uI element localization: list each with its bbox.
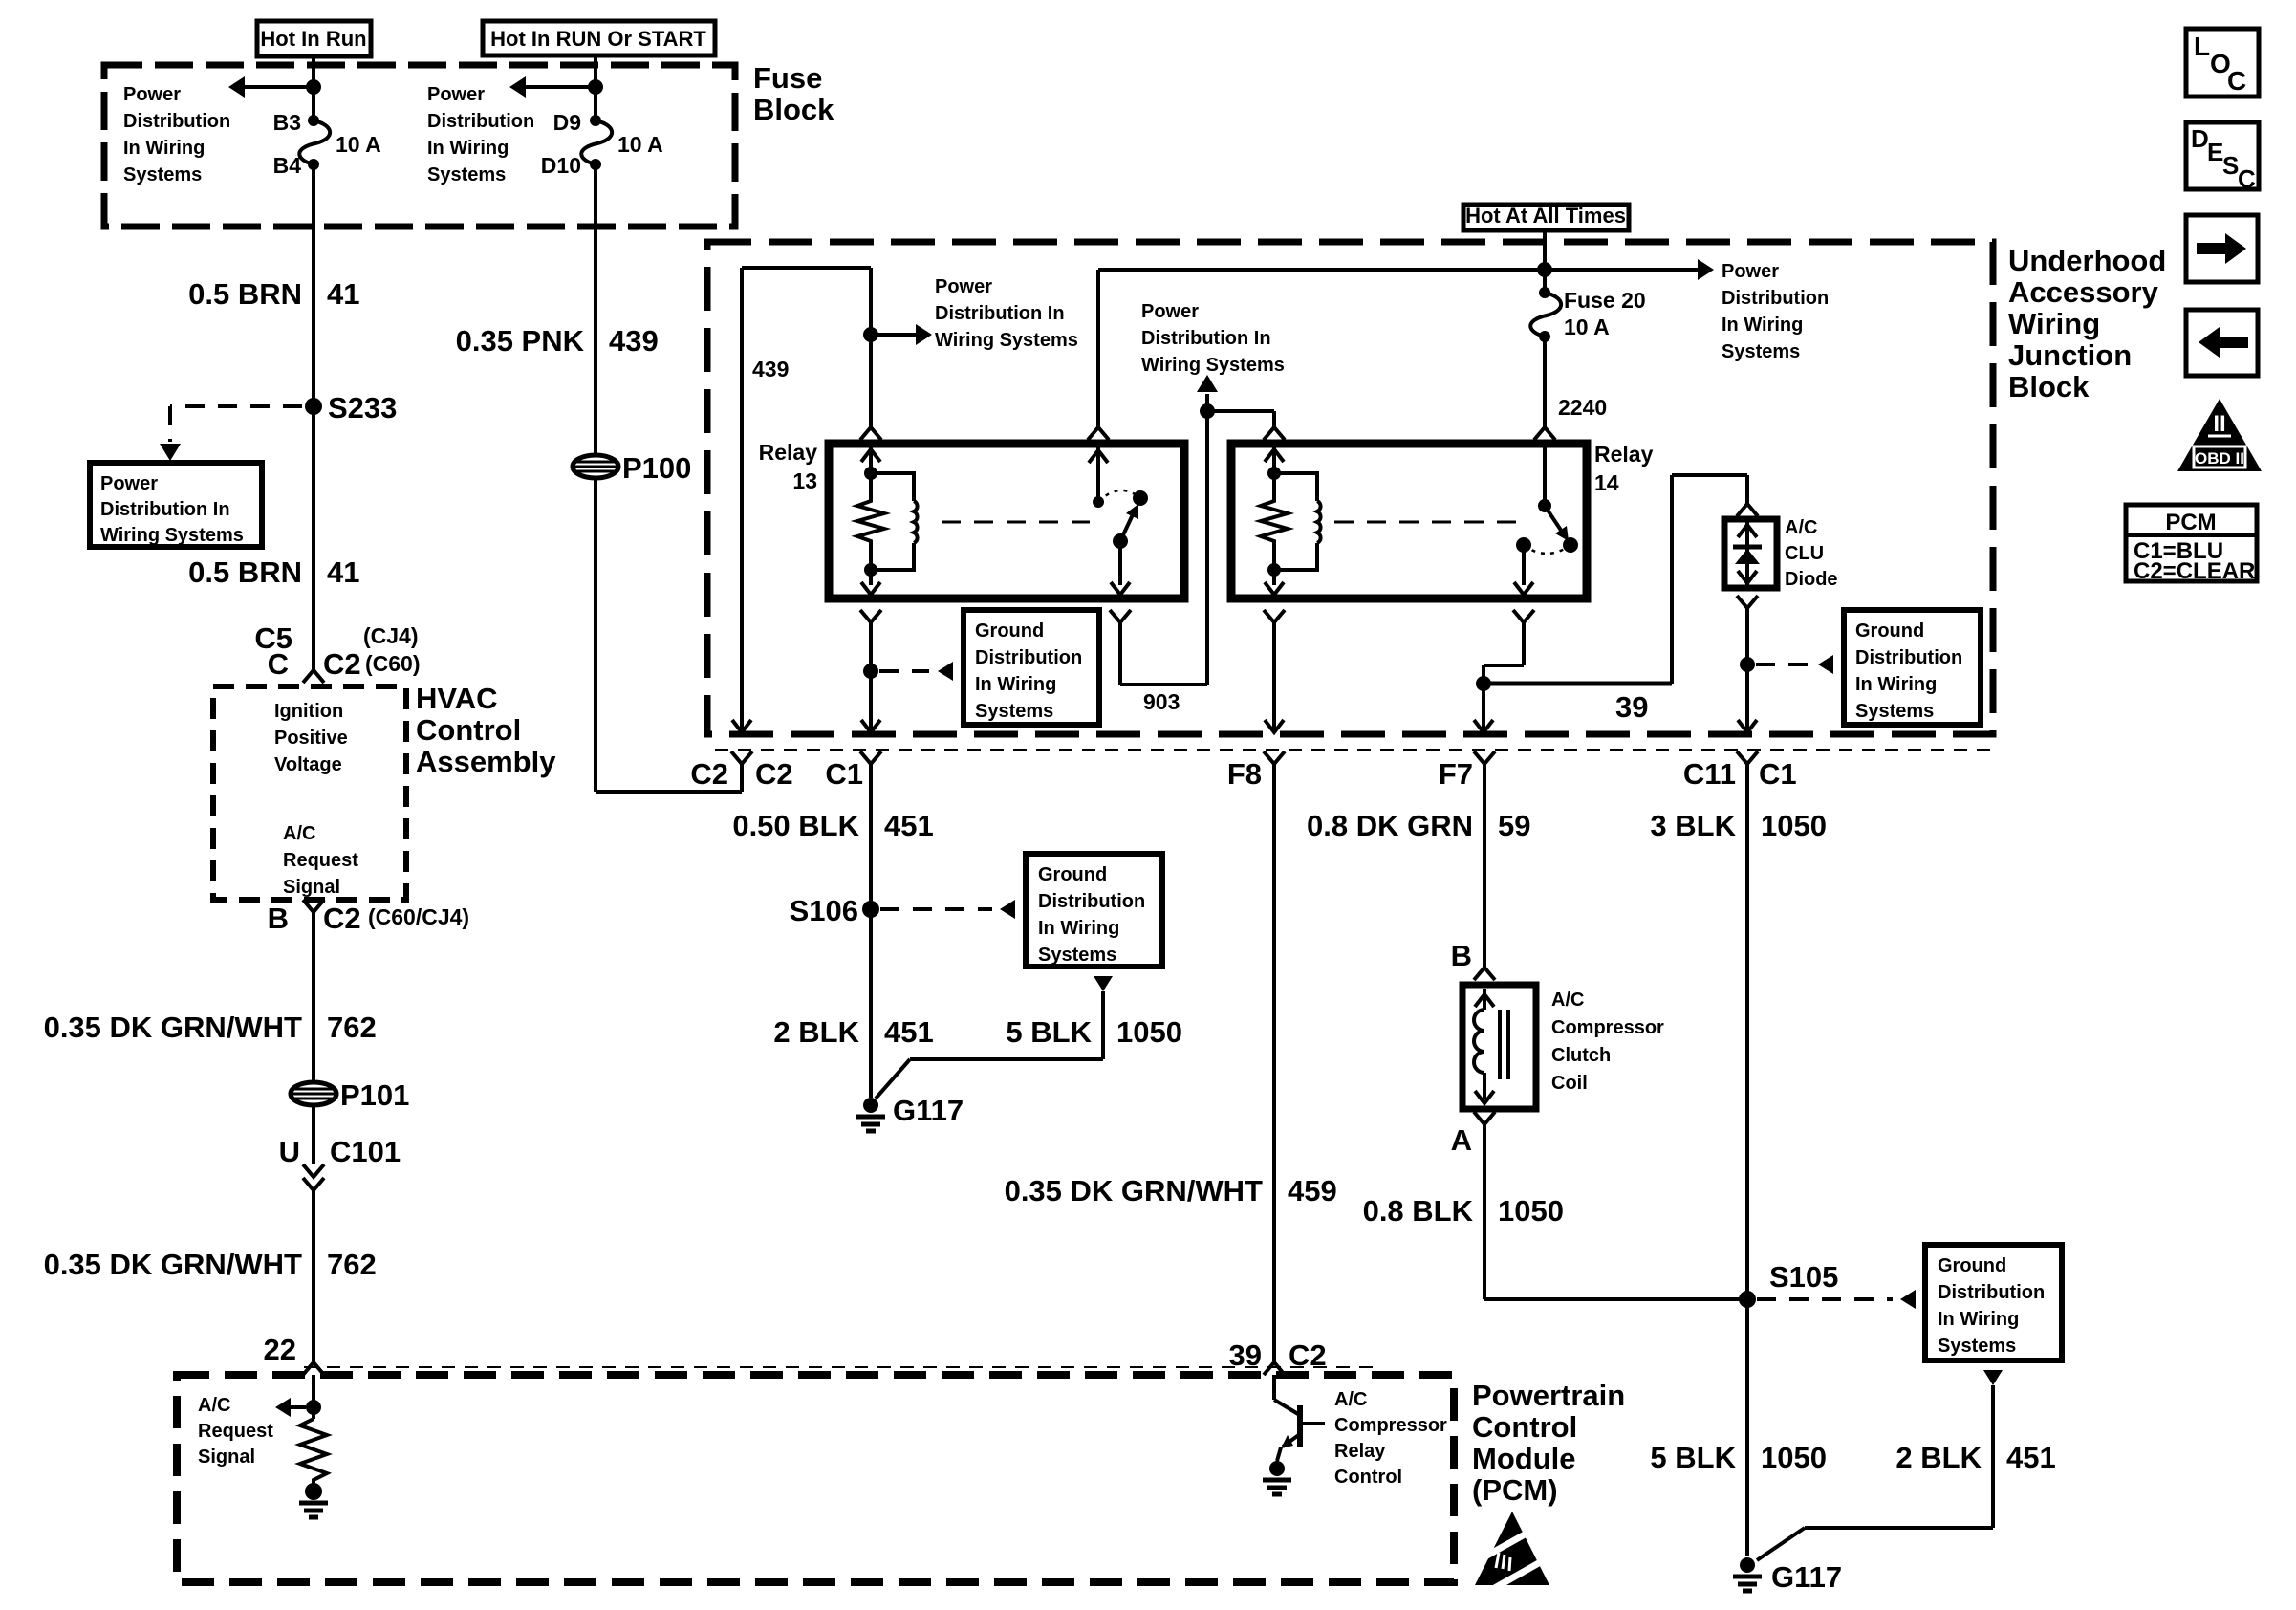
svg-text:13: 13 [792, 468, 817, 493]
svg-text:Compressor: Compressor [1334, 1415, 1447, 1436]
svg-text:Diode: Diode [1785, 569, 1838, 590]
svg-text:Module: Module [1472, 1442, 1576, 1475]
svg-text:C1: C1 [1759, 757, 1797, 791]
svg-text:Wiring Systems: Wiring Systems [935, 330, 1078, 351]
svg-text:Hot In RUN Or START: Hot In RUN Or START [490, 27, 706, 51]
svg-text:1050: 1050 [1761, 809, 1827, 842]
svg-text:Systems: Systems [123, 164, 202, 185]
svg-text:In Wiring: In Wiring [1855, 674, 1937, 695]
svg-text:C11: C11 [1683, 757, 1736, 791]
svg-text:C2: C2 [755, 757, 793, 791]
svg-text:(C60): (C60) [365, 651, 421, 676]
svg-text:C101: C101 [330, 1135, 401, 1168]
svg-text:E: E [2207, 138, 2223, 166]
svg-text:C1: C1 [825, 757, 863, 791]
svg-text:B: B [1451, 939, 1472, 972]
svg-text:459: 459 [1288, 1174, 1337, 1207]
svg-text:Systems: Systems [1938, 1336, 2016, 1357]
svg-text:C: C [2238, 164, 2256, 193]
svg-text:Distribution In: Distribution In [935, 303, 1065, 324]
svg-text:A: A [1451, 1123, 1472, 1157]
svg-text:2240: 2240 [1558, 395, 1607, 420]
svg-text:903: 903 [1143, 689, 1180, 714]
svg-text:0.5 BRN: 0.5 BRN [188, 277, 302, 311]
svg-text:10 A: 10 A [1564, 315, 1610, 339]
svg-text:(C60/CJ4): (C60/CJ4) [368, 904, 469, 929]
svg-text:451: 451 [884, 809, 934, 842]
svg-text:Relay: Relay [1594, 442, 1654, 467]
svg-text:A/C: A/C [1551, 990, 1584, 1011]
svg-text:Systems: Systems [1722, 341, 1800, 362]
svg-text:Distribution In: Distribution In [100, 499, 230, 520]
svg-text:In Wiring: In Wiring [975, 674, 1056, 695]
svg-text:59: 59 [1498, 809, 1530, 842]
svg-text:10 A: 10 A [336, 132, 381, 157]
svg-text:C: C [2227, 66, 2246, 96]
svg-text:Control: Control [1334, 1467, 1402, 1488]
svg-text:D: D [2191, 124, 2209, 153]
svg-text:Wiring: Wiring [2008, 307, 2100, 340]
svg-text:Signal: Signal [283, 877, 340, 898]
svg-text:451: 451 [884, 1015, 934, 1049]
svg-text:In Wiring: In Wiring [1038, 918, 1119, 939]
svg-text:Voltage: Voltage [274, 754, 342, 775]
svg-text:CLU: CLU [1785, 543, 1824, 564]
svg-text:Coil: Coil [1551, 1073, 1588, 1094]
svg-text:Ignition: Ignition [274, 701, 343, 722]
svg-text:762: 762 [327, 1011, 377, 1044]
svg-text:Junction: Junction [2008, 338, 2132, 372]
svg-text:2 BLK: 2 BLK [1895, 1441, 1982, 1474]
svg-text:Wiring Systems: Wiring Systems [100, 525, 244, 546]
svg-text:HVAC: HVAC [416, 682, 498, 715]
svg-text:Power: Power [427, 84, 485, 105]
svg-text:Positive: Positive [274, 728, 348, 749]
svg-text:S106: S106 [790, 894, 858, 927]
svg-text:A/C: A/C [1785, 517, 1817, 538]
svg-text:1050: 1050 [1498, 1194, 1564, 1228]
svg-text:0.50 BLK: 0.50 BLK [732, 809, 859, 842]
svg-text:S105: S105 [1769, 1260, 1838, 1294]
svg-text:U: U [279, 1135, 300, 1168]
svg-text:In Wiring: In Wiring [123, 138, 205, 159]
svg-text:1050: 1050 [1761, 1441, 1827, 1474]
svg-text:Control: Control [416, 713, 521, 747]
svg-text:Power: Power [100, 473, 158, 494]
svg-text:(CJ4): (CJ4) [363, 623, 419, 648]
svg-text:2 BLK: 2 BLK [773, 1015, 859, 1049]
svg-text:G117: G117 [893, 1094, 964, 1127]
svg-text:B4: B4 [273, 153, 302, 178]
svg-text:In Wiring: In Wiring [427, 138, 509, 159]
svg-text:0.35 DK GRN/WHT: 0.35 DK GRN/WHT [44, 1248, 302, 1281]
svg-text:L: L [2194, 32, 2210, 61]
svg-text:Power: Power [123, 84, 181, 105]
svg-text:Distribution: Distribution [427, 111, 534, 132]
svg-text:Systems: Systems [975, 701, 1053, 722]
svg-text:Distribution: Distribution [1938, 1282, 2045, 1303]
svg-text:Clutch: Clutch [1551, 1045, 1611, 1066]
svg-text:C2: C2 [323, 902, 361, 935]
svg-text:0.5 BRN: 0.5 BRN [188, 555, 302, 589]
svg-text:10 A: 10 A [617, 132, 663, 157]
svg-text:A/C: A/C [283, 823, 315, 844]
svg-text:Request: Request [283, 850, 358, 871]
svg-text:Distribution: Distribution [1722, 288, 1829, 309]
svg-text:Distribution: Distribution [975, 647, 1082, 668]
svg-text:0.35 DK GRN/WHT: 0.35 DK GRN/WHT [1005, 1174, 1263, 1207]
svg-text:Ground: Ground [1938, 1255, 2006, 1276]
svg-text:In Wiring: In Wiring [1722, 315, 1803, 336]
svg-text:G117: G117 [1771, 1560, 1842, 1594]
svg-text:In Wiring: In Wiring [1938, 1309, 2019, 1330]
svg-text:Power: Power [935, 276, 992, 297]
svg-text:D9: D9 [553, 110, 581, 135]
svg-text:Control: Control [1472, 1410, 1577, 1444]
svg-text:0.8 BLK: 0.8 BLK [1363, 1194, 1474, 1228]
svg-text:A/C: A/C [1334, 1389, 1367, 1410]
svg-text:Relay: Relay [759, 440, 818, 465]
svg-text:Signal: Signal [198, 1447, 255, 1468]
svg-text:C: C [268, 647, 289, 681]
svg-text:Fuse: Fuse [753, 61, 822, 95]
svg-text:F7: F7 [1439, 757, 1473, 791]
svg-text:(PCM): (PCM) [1472, 1473, 1558, 1507]
svg-text:Hot At All Times: Hot At All Times [1465, 204, 1626, 228]
svg-text:C2: C2 [323, 647, 361, 681]
svg-text:41: 41 [327, 277, 359, 311]
svg-text:3 BLK: 3 BLK [1650, 809, 1736, 842]
svg-text:P100: P100 [622, 451, 691, 485]
svg-text:Power: Power [1722, 261, 1779, 282]
svg-text:II: II [2213, 411, 2225, 437]
svg-text:1050: 1050 [1116, 1015, 1182, 1049]
svg-text:41: 41 [327, 555, 359, 589]
svg-text:Underhood: Underhood [2008, 244, 2166, 277]
svg-text:Systems: Systems [1038, 945, 1116, 966]
svg-text:Hot In Run: Hot In Run [260, 27, 366, 51]
svg-text:A/C: A/C [198, 1395, 230, 1416]
svg-text:Assembly: Assembly [416, 745, 556, 778]
svg-text:P101: P101 [340, 1078, 409, 1112]
svg-text:F8: F8 [1227, 757, 1262, 791]
svg-text:Systems: Systems [1855, 701, 1934, 722]
svg-text:762: 762 [327, 1248, 377, 1281]
svg-text:0.8 DK GRN: 0.8 DK GRN [1307, 809, 1473, 842]
svg-text:Wiring Systems: Wiring Systems [1141, 355, 1285, 376]
svg-text:D10: D10 [541, 153, 581, 178]
svg-text:S: S [2222, 151, 2239, 180]
svg-text:Block: Block [753, 93, 834, 126]
svg-text:Systems: Systems [427, 164, 506, 185]
svg-text:Request: Request [198, 1421, 273, 1442]
svg-text:451: 451 [2006, 1441, 2056, 1474]
svg-text:S233: S233 [328, 391, 397, 424]
svg-text:Distribution In: Distribution In [1141, 328, 1271, 349]
svg-text:Relay: Relay [1334, 1441, 1386, 1462]
svg-text:Distribution: Distribution [1038, 891, 1145, 912]
svg-text:Ground: Ground [1855, 620, 1924, 642]
svg-text:Distribution: Distribution [123, 111, 230, 132]
svg-text:Distribution: Distribution [1855, 647, 1962, 668]
svg-text:Ground: Ground [975, 620, 1044, 642]
svg-text:5 BLK: 5 BLK [1006, 1015, 1092, 1049]
svg-text:Block: Block [2008, 370, 2090, 403]
svg-text:Power: Power [1141, 301, 1199, 322]
svg-text:0.35 DK GRN/WHT: 0.35 DK GRN/WHT [44, 1011, 302, 1044]
svg-text:22: 22 [264, 1333, 296, 1366]
svg-text:OBD II: OBD II [2195, 449, 2244, 468]
svg-text:0.35 PNK: 0.35 PNK [456, 324, 585, 358]
svg-text:Ground: Ground [1038, 864, 1107, 885]
svg-text:Accessory: Accessory [2008, 275, 2159, 309]
svg-text:Fuse 20: Fuse 20 [1564, 288, 1646, 313]
svg-text:C2: C2 [690, 757, 728, 791]
svg-text:PCM: PCM [2165, 510, 2216, 535]
svg-text:5 BLK: 5 BLK [1650, 1441, 1736, 1474]
svg-text:439: 439 [609, 324, 659, 358]
svg-text:Compressor: Compressor [1551, 1017, 1664, 1038]
svg-text:439: 439 [752, 357, 789, 381]
svg-text:Powertrain: Powertrain [1472, 1379, 1625, 1412]
svg-text:B3: B3 [273, 110, 301, 135]
svg-text:C2=CLEAR: C2=CLEAR [2134, 558, 2255, 584]
svg-text:14: 14 [1594, 470, 1619, 495]
svg-text:B: B [268, 902, 289, 935]
svg-text:39: 39 [1615, 690, 1648, 724]
